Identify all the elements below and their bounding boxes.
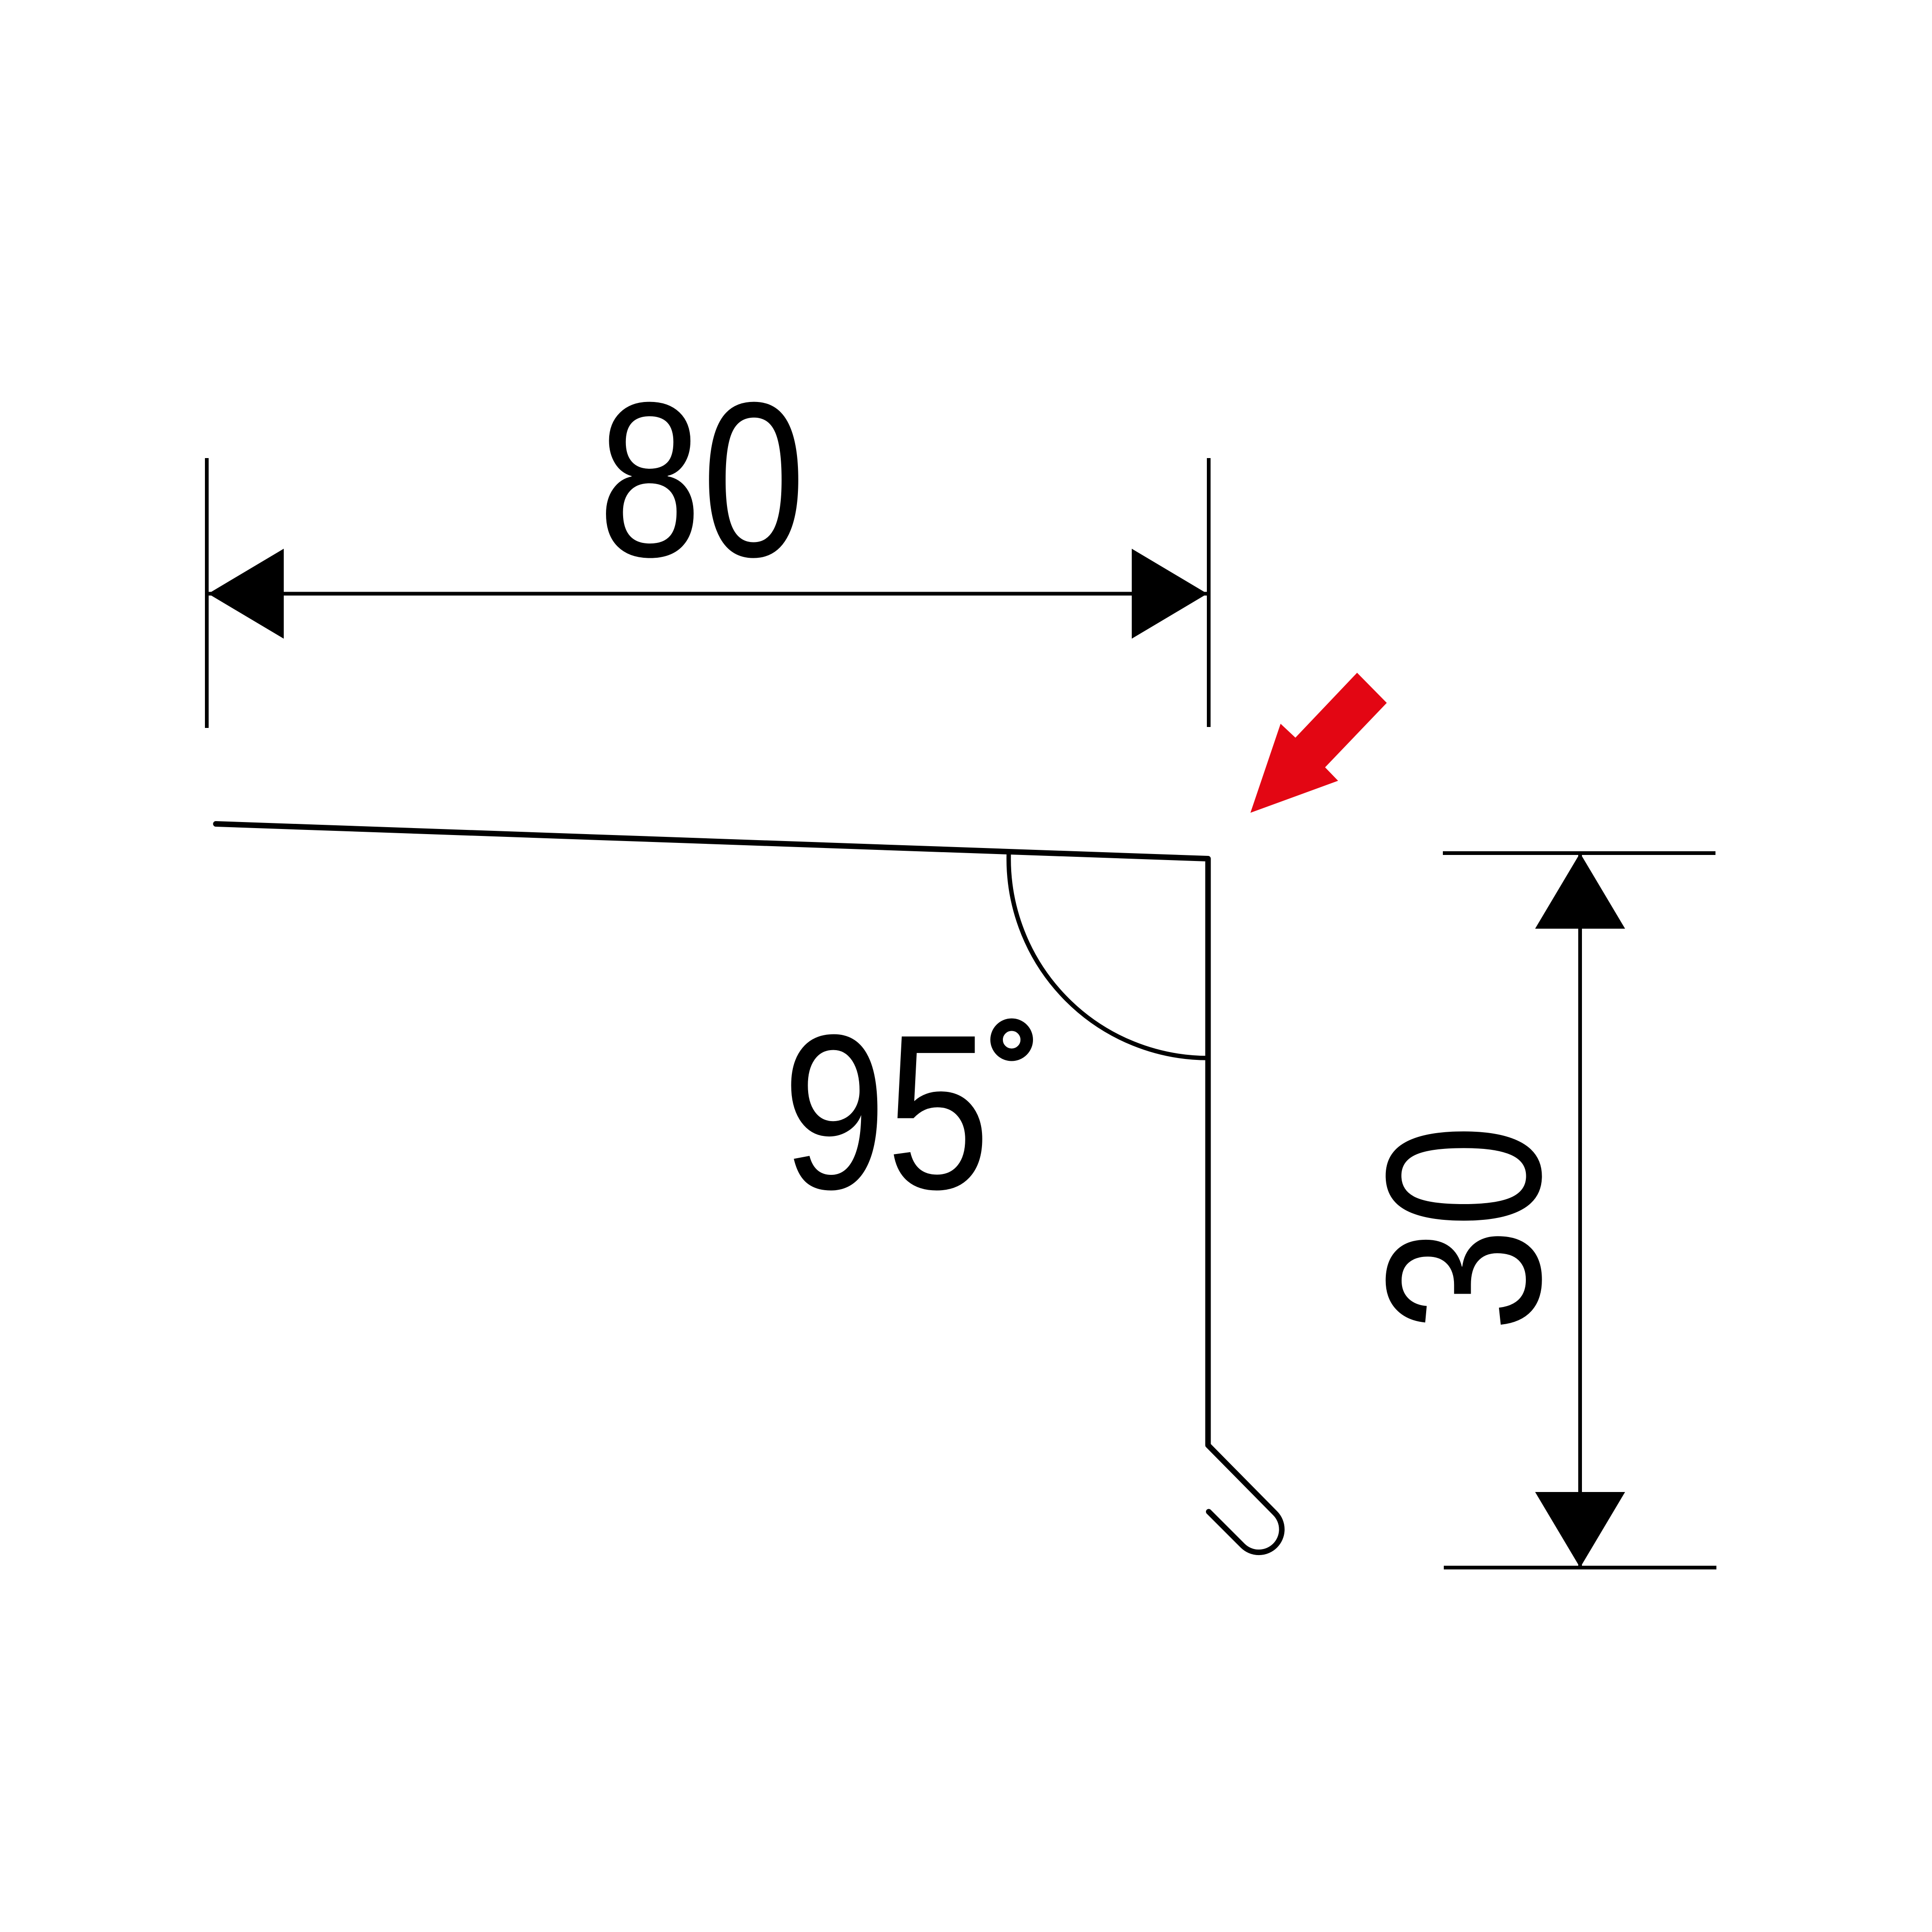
svg-text:95: 95 [783,989,990,1235]
profile outline (flashing cross-section) [216,824,1282,1552]
dim 30: top arrowhead [1535,853,1625,929]
dim 30: top extension line [1443,851,1715,855]
dim 80: right arrowhead [1132,549,1207,639]
dim 30: bottom arrowhead [1535,1492,1625,1568]
dim 80: dimension line [207,592,1209,596]
dim 30: dimension line [1578,853,1582,1568]
svg-text:30: 30 [1340,1124,1587,1332]
dim 80: right extension line [1207,458,1211,727]
dim 30: bottom extension line [1444,1566,1716,1569]
red pointer arrow [1250,673,1387,813]
angle arc 95 deg [1009,852,1208,1058]
svg-text:80: 80 [598,357,806,603]
dim 80: left arrowhead [208,549,284,639]
degree ring [997,1025,1027,1055]
dim 80: left extension line [205,458,209,728]
